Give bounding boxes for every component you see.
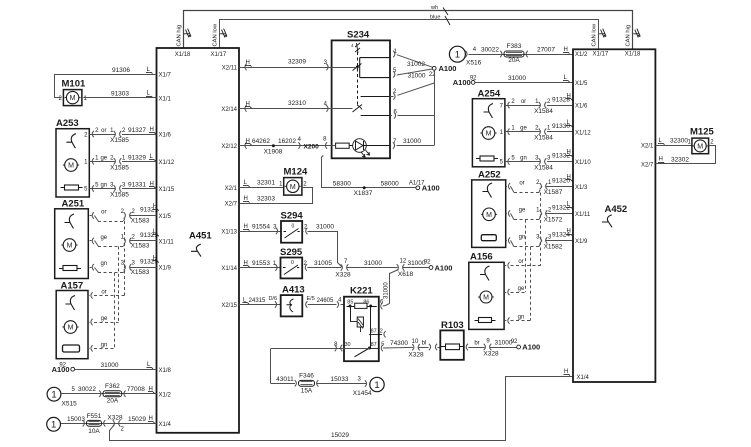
wire 31000 to A100 right xyxy=(490,347,517,349)
dashed wire or from A156 xyxy=(508,262,510,268)
svg-text:ge: ge xyxy=(101,316,108,322)
fuse F362 20A xyxy=(103,391,122,397)
svg-text:gn: gn xyxy=(101,342,108,348)
svg-text:M: M xyxy=(483,295,489,302)
svg-text:F362: F362 xyxy=(105,383,120,390)
svg-text:X1/11: X1/11 xyxy=(159,240,175,246)
svg-text:31000: 31000 xyxy=(364,260,382,267)
svg-text:X2/14: X2/14 xyxy=(221,107,237,113)
svg-text:30: 30 xyxy=(345,342,351,348)
svg-text:A100: A100 xyxy=(522,343,540,352)
svg-text:X1/4: X1/4 xyxy=(159,422,172,428)
svg-text:gn: gn xyxy=(520,156,527,162)
motor symbol in A157 xyxy=(64,321,77,334)
svg-text:A413: A413 xyxy=(282,285,305,296)
dashed wire ge from A156 xyxy=(508,289,510,295)
svg-text:H: H xyxy=(246,60,250,66)
wire 15029 bottom bus to A452 X1/4 xyxy=(110,377,574,441)
svg-text:H: H xyxy=(659,157,663,163)
wire 91330 A254 pin1 to X1/12 via X1584 xyxy=(508,129,510,135)
svg-text:gn: gn xyxy=(518,314,525,320)
wire 91321 A251 to X1/5 via X1583 (dashed variant) xyxy=(92,212,94,218)
svg-text:X1/18: X1/18 xyxy=(175,52,191,58)
svg-text:31000: 31000 xyxy=(316,223,334,230)
svg-text:74300: 74300 xyxy=(390,340,408,347)
svg-text:X1/2: X1/2 xyxy=(159,392,172,398)
svg-text:X1/18: X1/18 xyxy=(625,51,641,57)
svg-text:X1/17: X1/17 xyxy=(593,51,609,57)
selector marks inside S234 top xyxy=(355,43,360,53)
svg-text:1: 1 xyxy=(51,420,56,431)
svg-text:CAN low: CAN low xyxy=(213,23,219,46)
ground terminal A100 pin 92 middle xyxy=(429,266,433,270)
svg-text:X1837: X1837 xyxy=(354,190,373,197)
svg-text:ge: ge xyxy=(519,208,526,214)
fuse F551 10A xyxy=(87,420,102,426)
svg-text:31000: 31000 xyxy=(403,138,421,145)
illumination LED in S234 xyxy=(353,139,367,153)
svg-text:br: br xyxy=(474,341,479,347)
wire 58300 / 58000 illumination to A100 A1/17 xyxy=(321,156,323,161)
svg-text:X1/2: X1/2 xyxy=(575,52,588,58)
switch symbol in A254 xyxy=(484,104,494,119)
svg-text:X1454: X1454 xyxy=(353,390,372,397)
wire 91325 A251 to X1/9 via X1583 (dashed variant) xyxy=(92,264,94,270)
svg-text:H: H xyxy=(244,196,248,202)
svg-text:H: H xyxy=(567,229,571,235)
svg-text:X1/12: X1/12 xyxy=(159,160,175,166)
svg-text:92: 92 xyxy=(59,362,66,368)
svg-text:A100: A100 xyxy=(439,64,457,73)
svg-text:X1/4: X1/4 xyxy=(577,375,590,381)
svg-text:20A: 20A xyxy=(508,57,520,64)
svg-text:K221: K221 xyxy=(350,286,373,297)
svg-text:or: or xyxy=(101,128,106,134)
svg-text:24315: 24315 xyxy=(249,298,266,304)
svg-text:X1584: X1584 xyxy=(534,165,553,172)
svg-text:ge: ge xyxy=(100,155,107,161)
svg-text:X1/17: X1/17 xyxy=(211,52,227,58)
control unit A452 box xyxy=(573,49,655,382)
svg-text:31000: 31000 xyxy=(508,75,526,82)
svg-text:H: H xyxy=(150,127,154,133)
svg-text:E/5: E/5 xyxy=(307,296,315,302)
svg-text:X1/10: X1/10 xyxy=(575,160,591,166)
wire 91303 from M101 pin 1 to X1/1 xyxy=(83,97,156,99)
svg-text:X515: X515 xyxy=(62,401,78,408)
svg-text:10A: 10A xyxy=(88,428,100,435)
svg-text:91331: 91331 xyxy=(128,182,146,189)
dashed wire ge from A157 xyxy=(91,319,93,325)
svg-text:X1/6: X1/6 xyxy=(159,133,172,139)
svg-text:M: M xyxy=(486,212,492,219)
svg-text:X2/15: X2/15 xyxy=(221,303,237,309)
junction X618 pin 12 xyxy=(397,264,399,270)
svg-text:X1584: X1584 xyxy=(534,135,553,142)
svg-text:H: H xyxy=(564,369,568,375)
svg-text:91306: 91306 xyxy=(112,67,130,74)
wire 15003 fuse F551 10A to X328 xyxy=(61,423,157,425)
svg-text:S234: S234 xyxy=(347,30,370,41)
ground terminal A100 pin 22 xyxy=(432,66,436,70)
wire 91327 A253 pin2 to X1/6 via X1585 xyxy=(92,131,94,137)
symbol inside A451 xyxy=(191,244,201,256)
svg-text:H: H xyxy=(564,47,568,53)
svg-text:91553: 91553 xyxy=(252,260,270,267)
wire 31000 to X618 junction xyxy=(347,267,398,269)
svg-text:A252: A252 xyxy=(478,170,501,181)
svg-text:92: 92 xyxy=(470,75,477,81)
svg-text:A100: A100 xyxy=(453,78,471,87)
svg-text:31000: 31000 xyxy=(383,282,389,299)
svg-text:gn: gn xyxy=(100,183,107,189)
motor symbol in A251 xyxy=(63,239,76,252)
svg-text:X1/13: X1/13 xyxy=(221,230,237,236)
motor symbol in A253 xyxy=(65,159,78,172)
svg-text:X2/1: X2/1 xyxy=(225,186,238,192)
relay armature in K221 xyxy=(350,306,352,322)
power feed terminal circle 1 X515 xyxy=(47,387,61,401)
wire 91328 A254 pin7 to X1/6 via X1584 xyxy=(508,102,510,108)
svg-text:wh: wh xyxy=(430,5,438,11)
svg-text:M: M xyxy=(68,163,74,170)
svg-text:22: 22 xyxy=(429,72,436,78)
wire CAN high bus (wh) xyxy=(184,11,633,50)
wire 30022 fuse F383 20A wire 27007 to X1/2 of A452 xyxy=(465,51,467,57)
svg-text:or: or xyxy=(518,259,523,265)
svg-text:85: 85 xyxy=(347,299,353,305)
svg-text:ge: ge xyxy=(520,126,527,132)
svg-text:91329: 91329 xyxy=(128,154,146,161)
switch symbol in A252 xyxy=(483,183,493,198)
wire 15033 to circle 1 X1454 xyxy=(317,383,367,385)
wire 91554 X1/13 to S294 pin 3 xyxy=(239,231,281,233)
svg-text:27007: 27007 xyxy=(537,47,555,54)
svg-text:X1/5: X1/5 xyxy=(159,214,172,220)
svg-text:32303: 32303 xyxy=(257,196,275,203)
svg-text:A156: A156 xyxy=(470,252,493,263)
svg-text:X1/5: X1/5 xyxy=(575,81,588,87)
wire 91332 A254 pin5 to X1/10 via X1584 xyxy=(508,158,510,164)
svg-text:A451: A451 xyxy=(189,231,212,242)
heater symbol in A252 xyxy=(481,235,496,241)
wire 91306 from M101 pin 2 to X1/7 xyxy=(55,75,157,98)
svg-text:ge: ge xyxy=(100,235,107,241)
svg-text:43011: 43011 xyxy=(276,376,294,383)
svg-text:A253: A253 xyxy=(56,118,79,129)
svg-text:X2/1: X2/1 xyxy=(641,144,654,150)
svg-text:ge: ge xyxy=(518,286,525,292)
svg-text:M: M xyxy=(70,95,76,102)
svg-text:32300: 32300 xyxy=(670,138,688,145)
symbol inside A452 xyxy=(602,215,612,227)
wire 91329 A253 pin1 to X1/12 via X1585 xyxy=(92,158,94,164)
svg-text:X2/12: X2/12 xyxy=(221,144,237,150)
wire br from R103 to X328 pin 9 xyxy=(466,344,468,350)
svg-text:A100: A100 xyxy=(422,184,440,193)
svg-text:1: 1 xyxy=(374,380,379,391)
svg-text:X1582: X1582 xyxy=(544,243,563,250)
svg-text:32310: 32310 xyxy=(288,100,306,107)
svg-text:1: 1 xyxy=(51,390,56,401)
wire CAN low bus (blue) xyxy=(220,20,599,50)
switch symbol in A157 xyxy=(66,296,76,311)
svg-text:M: M xyxy=(68,325,74,332)
svg-text:A452: A452 xyxy=(605,204,628,215)
svg-text:X1/7: X1/7 xyxy=(159,73,172,79)
wire 31000 to X1/8 xyxy=(75,369,157,371)
wire 64262 / 16202 X2/12 to S234 pin 8 via X1908 and X200 xyxy=(239,145,336,147)
switch symbol in A251 xyxy=(65,214,75,229)
svg-text:X1585: X1585 xyxy=(110,164,129,171)
svg-text:X2/11: X2/11 xyxy=(222,66,238,72)
dashed variant link verticals A252/A156 xyxy=(540,193,542,266)
svg-text:blue: blue xyxy=(430,15,440,21)
svg-text:X328: X328 xyxy=(107,414,123,421)
svg-text:X1/8: X1/8 xyxy=(159,368,172,374)
svg-text:X1585: X1585 xyxy=(110,192,129,199)
svg-text:X516: X516 xyxy=(466,60,482,67)
svg-text:M: M xyxy=(486,131,492,138)
svg-text:or: or xyxy=(101,210,106,216)
wire 31000 from K221 pin 6 up to X618 xyxy=(386,270,399,306)
svg-text:A100: A100 xyxy=(435,263,453,272)
svg-text:32301: 32301 xyxy=(257,180,275,187)
svg-text:31000: 31000 xyxy=(407,73,425,80)
svg-text:32302: 32302 xyxy=(671,156,689,163)
contact lines pins 2 and 6 in S234 xyxy=(361,96,390,98)
svg-text:2: 2 xyxy=(380,328,383,334)
svg-text:H: H xyxy=(153,204,157,210)
wire 91324 A252 to X1/9 via X1582 (dashed variant) xyxy=(508,237,510,243)
resistor symbol in A156 xyxy=(479,318,492,323)
relay contact blade in K221 xyxy=(370,306,372,348)
svg-text:gn: gn xyxy=(100,261,107,267)
wire 91331 A253 pin5 to X1/15 via X1585 xyxy=(92,185,94,191)
svg-text:20A: 20A xyxy=(107,398,119,405)
svg-text:M: M xyxy=(290,184,296,191)
svg-text:or: or xyxy=(521,99,526,105)
svg-text:X1/3: X1/3 xyxy=(575,185,588,191)
dashed variant link wire A251/A157 vertical 3 xyxy=(114,273,116,349)
wire K221 pin 6 stub to ground xyxy=(381,303,383,309)
svg-text:M: M xyxy=(67,243,73,250)
power feed terminal circle 1 bottom left xyxy=(47,417,61,431)
svg-text:87: 87 xyxy=(371,342,377,348)
svg-text:77008: 77008 xyxy=(127,386,145,393)
svg-text:F346: F346 xyxy=(299,373,314,380)
svg-text:32309: 32309 xyxy=(288,59,306,66)
dashed variant link wire A251/A157 vertical 2 xyxy=(118,246,120,322)
wire 30022 fuse F362 20A wire 77008 to X1/2 xyxy=(61,393,157,395)
power feed terminal circle 1 X1454 xyxy=(370,377,384,391)
svg-text:F383: F383 xyxy=(507,43,522,50)
svg-text:bl: bl xyxy=(422,341,427,347)
svg-text:31002: 31002 xyxy=(407,61,425,68)
svg-text:X1/6: X1/6 xyxy=(575,104,588,110)
svg-text:X1583: X1583 xyxy=(131,243,150,250)
svg-text:A254: A254 xyxy=(478,89,501,100)
svg-text:30022: 30022 xyxy=(78,386,96,393)
svg-text:X1585: X1585 xyxy=(110,137,129,144)
wire 91320 A252 to X1/3 via X1587 (dashed variant) xyxy=(508,183,510,189)
ground terminal A100 pin 92 right xyxy=(517,345,521,349)
wire 91322 A252 to X1/11 via X1572 (dashed variant) xyxy=(508,210,510,216)
svg-text:A251: A251 xyxy=(62,199,85,210)
svg-text:86: 86 xyxy=(363,299,369,305)
wire bl to R103 xyxy=(419,347,429,349)
svg-text:S295: S295 xyxy=(280,247,303,258)
resistor symbol in A254 xyxy=(480,156,494,161)
resistor symbol in A253 xyxy=(65,185,79,190)
svg-text:10: 10 xyxy=(412,339,419,345)
svg-text:58300: 58300 xyxy=(333,180,351,187)
wire 32302 M125 pin 2 loop to X2/7 xyxy=(656,146,716,164)
svg-text:X1583: X1583 xyxy=(131,269,150,276)
svg-text:R103: R103 xyxy=(441,320,464,331)
svg-text:15029: 15029 xyxy=(331,432,349,439)
switch contact pin 4 in S234 xyxy=(353,105,363,113)
svg-text:F551: F551 xyxy=(87,413,102,420)
svg-text:M124: M124 xyxy=(284,167,308,178)
wire 24605 A413 pin E/5 to K221 pin 4 xyxy=(306,301,308,307)
svg-text:X618: X618 xyxy=(398,271,414,278)
svg-text:91327: 91327 xyxy=(128,127,146,134)
svg-text:X2/7: X2/7 xyxy=(225,202,238,208)
svg-text:1: 1 xyxy=(455,50,460,61)
power feed terminal circle 1 X516 xyxy=(449,46,465,62)
svg-text:CAN low: CAN low xyxy=(592,23,598,46)
dashed wire gn from A157 xyxy=(91,345,93,351)
wire 24315 X2/15 to A413 pin D/6 xyxy=(239,304,281,306)
svg-text:24605: 24605 xyxy=(317,298,334,304)
switch symbol in A253 xyxy=(66,134,76,149)
svg-text:X1/9: X1/9 xyxy=(159,266,172,272)
svg-text:X1/15: X1/15 xyxy=(159,187,175,193)
svg-text:M: M xyxy=(697,144,703,151)
svg-text:gn: gn xyxy=(519,235,526,241)
CAN twist marker right pair xyxy=(599,29,606,38)
svg-text:15029: 15029 xyxy=(128,416,146,423)
svg-text:X1/9: X1/9 xyxy=(575,239,588,245)
svg-text:0: 0 xyxy=(291,260,294,266)
svg-text:16202: 16202 xyxy=(278,138,296,145)
svg-text:X328: X328 xyxy=(335,272,351,279)
svg-text:X1/14: X1/14 xyxy=(221,266,237,272)
wire 32309 X2/11 to S234 pin 3 xyxy=(239,67,357,69)
svg-text:64262: 64262 xyxy=(252,138,270,145)
fuse F346 15A xyxy=(299,380,315,386)
svg-text:15A: 15A xyxy=(301,388,313,395)
wire 31000 to A100 pin 92 xyxy=(403,267,429,269)
svg-text:or: or xyxy=(519,181,524,187)
wire 31000 to X1/5 of A452 xyxy=(475,82,573,84)
ground bus from S234 pins 2 6 7 to A100 22 xyxy=(434,70,436,145)
svg-text:CAN hig: CAN hig xyxy=(177,25,183,47)
svg-text:M125: M125 xyxy=(690,127,714,138)
wire 32301 X2/1 to M124 pin 1 xyxy=(239,187,284,189)
svg-text:X2/7: X2/7 xyxy=(641,162,654,168)
dashed wire gn from A156 xyxy=(508,317,510,323)
motor symbol in A156 xyxy=(480,291,492,303)
heater symbol in A157 xyxy=(63,345,80,352)
wire 32310 X2/14 to S234 pin 4 xyxy=(239,108,353,110)
svg-text:M101: M101 xyxy=(62,79,86,90)
svg-text:H: H xyxy=(244,224,248,230)
svg-text:X328: X328 xyxy=(408,352,424,359)
svg-text:0: 0 xyxy=(292,224,295,230)
dashed wire or from A157 xyxy=(91,292,93,298)
switch symbol in A156 xyxy=(480,266,490,281)
svg-text:X1/12: X1/12 xyxy=(575,130,591,136)
svg-text:or: or xyxy=(101,289,106,295)
svg-text:X1908: X1908 xyxy=(264,149,283,156)
svg-text:X1572: X1572 xyxy=(544,216,563,223)
svg-text:X1/11: X1/11 xyxy=(575,212,591,218)
resistor block pins 1-5 in S234 xyxy=(360,58,390,78)
wire 32303 M124 pin 2 loop to X2/7 xyxy=(240,188,313,204)
svg-text:92: 92 xyxy=(511,339,518,345)
svg-text:12: 12 xyxy=(400,258,407,264)
motor symbol in A252 xyxy=(483,208,496,221)
junction X328 pin 7 xyxy=(341,264,343,270)
wire 91553 X1/14 to S295 pin 1 xyxy=(239,267,281,269)
svg-text:H: H xyxy=(567,150,571,156)
svg-text:15033: 15033 xyxy=(330,376,348,383)
svg-text:92: 92 xyxy=(424,259,431,265)
svg-text:X328: X328 xyxy=(483,351,499,358)
svg-text:58000: 58000 xyxy=(381,180,399,187)
wire 91323 A251 to X1/11 via X1583 (dashed variant) xyxy=(92,238,94,244)
svg-text:S294: S294 xyxy=(281,211,304,222)
resistor symbol in A251 xyxy=(63,266,77,271)
wire 32300 X2/1 to M125 pin 1 xyxy=(655,145,692,147)
dashed actuator line in S234 xyxy=(357,52,359,107)
svg-text:X1584: X1584 xyxy=(534,108,553,115)
control unit A451 box xyxy=(157,48,240,433)
svg-text:X1/1: X1/1 xyxy=(159,96,172,102)
fuse F383 20A xyxy=(504,51,524,57)
svg-text:31000: 31000 xyxy=(100,362,118,369)
svg-text:87: 87 xyxy=(371,328,377,334)
svg-text:CAN hig: CAN hig xyxy=(626,25,632,47)
dashed variant link wire A251/A157 vertical 1 xyxy=(124,221,126,295)
svg-text:91303: 91303 xyxy=(111,91,129,98)
svg-text:X1587: X1587 xyxy=(544,189,563,196)
wire 74300 to X328 pin 10 xyxy=(383,346,413,349)
svg-text:30022: 30022 xyxy=(481,47,499,54)
CAN twist marker left pair xyxy=(184,29,191,38)
svg-text:X1583: X1583 xyxy=(131,217,150,224)
svg-text:15003: 15003 xyxy=(67,416,85,423)
motor symbol in A254 xyxy=(482,127,495,140)
svg-text:91554: 91554 xyxy=(252,224,270,231)
svg-text:D/6: D/6 xyxy=(268,296,277,302)
svg-text:31005: 31005 xyxy=(314,260,332,267)
svg-text:X200: X200 xyxy=(304,144,320,151)
wire 43011 feed from fuse F346 to K221 xyxy=(270,349,272,384)
switch contact pin 3 in S234 xyxy=(356,66,359,69)
illumination resistor in S234 xyxy=(336,143,350,148)
